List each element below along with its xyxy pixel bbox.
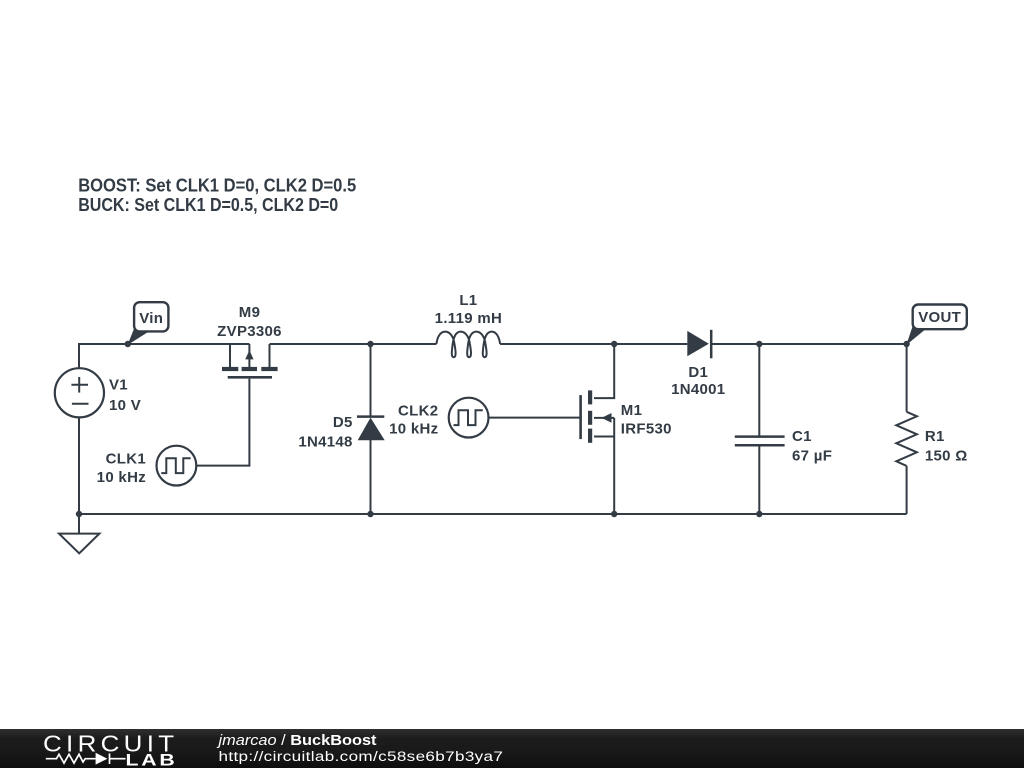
svg-text:ZVP3306: ZVP3306 — [217, 323, 282, 340]
svg-text:BOOST: Set CLK1 D=0, CLK2 D=0.: BOOST: Set CLK1 D=0, CLK2 D=0.5 — [78, 175, 356, 195]
svg-text:1N4148: 1N4148 — [298, 434, 352, 451]
svg-text:M1: M1 — [621, 402, 642, 419]
svg-text:IRF530: IRF530 — [621, 420, 672, 437]
svg-text:Vin: Vin — [139, 310, 163, 327]
svg-text:L1: L1 — [459, 292, 477, 309]
svg-text:CLK2: CLK2 — [398, 403, 438, 420]
svg-text:10 kHz: 10 kHz — [97, 469, 146, 486]
svg-text:VOUT: VOUT — [918, 309, 961, 326]
svg-text:CLK1: CLK1 — [106, 451, 146, 468]
svg-text:V1: V1 — [109, 377, 128, 394]
svg-text:BUCK: Set CLK1 D=0.5, CLK2 D=0: BUCK: Set CLK1 D=0.5, CLK2 D=0 — [78, 195, 338, 215]
svg-text:1N4001: 1N4001 — [671, 381, 725, 398]
svg-text:10 V: 10 V — [109, 397, 141, 414]
svg-text:67 µF: 67 µF — [792, 448, 832, 465]
svg-text:1.119 mH: 1.119 mH — [435, 310, 502, 327]
svg-text:http://circuitlab.com/c58se6b7: http://circuitlab.com/c58se6b7b3ya7 — [219, 749, 504, 764]
svg-text:D1: D1 — [688, 364, 708, 381]
svg-text:jmarcao / BuckBoost: jmarcao / BuckBoost — [216, 732, 376, 749]
svg-text:150 Ω: 150 Ω — [925, 447, 968, 464]
svg-text:C1: C1 — [792, 428, 812, 445]
svg-text:M9: M9 — [239, 304, 260, 321]
svg-text:D5: D5 — [333, 414, 353, 431]
svg-text:LAB: LAB — [126, 751, 178, 768]
svg-text:R1: R1 — [925, 428, 945, 445]
svg-text:10 kHz: 10 kHz — [389, 420, 438, 437]
